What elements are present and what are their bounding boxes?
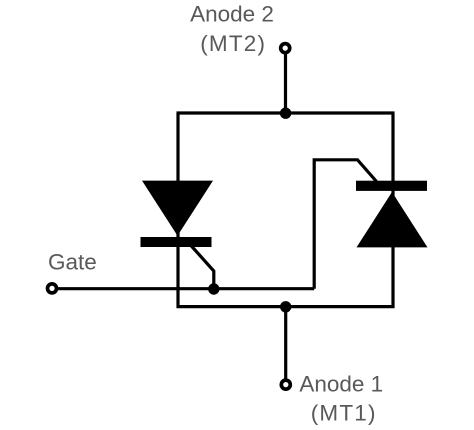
- svg-text:Gate: Gate: [48, 249, 97, 274]
- label: Anode 2: [190, 2, 274, 27]
- svg-text:(MT2): (MT2): [200, 31, 266, 56]
- node: junction dot on top rail: [280, 108, 291, 119]
- node: junction dot on bottom rail: [280, 301, 291, 312]
- label: Gate: [48, 249, 97, 274]
- terminal: Anode 2 (MT2) open circle: [281, 44, 290, 53]
- thyristor D2 cathode bar (top): [356, 181, 427, 191]
- label: (MT2): [200, 31, 266, 56]
- terminal: Anode 1 (MT1) open circle: [281, 380, 290, 389]
- thyristor D2 (right SCR, pointing up): triangle: [357, 192, 428, 247]
- svg-text:Anode 1: Anode 1: [299, 371, 383, 396]
- thyristor D1 (left SCR, pointing down): triangle: [142, 181, 213, 236]
- wire: gate lead of D1 (diagonal from cathode bar to gate node): [191, 245, 214, 289]
- wire: MT2 terminal lead down to top rail: [284, 48, 287, 113]
- svg-text:(MT1): (MT1): [311, 401, 377, 426]
- wire: MT1 lead from bottom rail to terminal: [284, 307, 287, 384]
- label: Anode 1: [299, 371, 383, 396]
- thyristor D1 cathode bar: [141, 237, 212, 247]
- wire: bottom rail: [177, 305, 395, 308]
- terminal: Gate open circle: [48, 284, 57, 293]
- wire: right side vertical (anode lead of D2): [391, 113, 394, 308]
- node: gate junction dot: [208, 283, 219, 294]
- wire: top rail: [177, 111, 395, 114]
- label: (MT1): [311, 401, 377, 426]
- svg-text:Anode 2: Anode 2: [190, 2, 274, 27]
- wire: gate rail from Gate terminal to right branch riser: [52, 287, 314, 290]
- wire: gate riser of D2 (up, across, diagonal to cathode bar): [314, 160, 376, 289]
- wire: left side vertical (anode of D1 / cathode run to bottom rail): [176, 113, 179, 308]
